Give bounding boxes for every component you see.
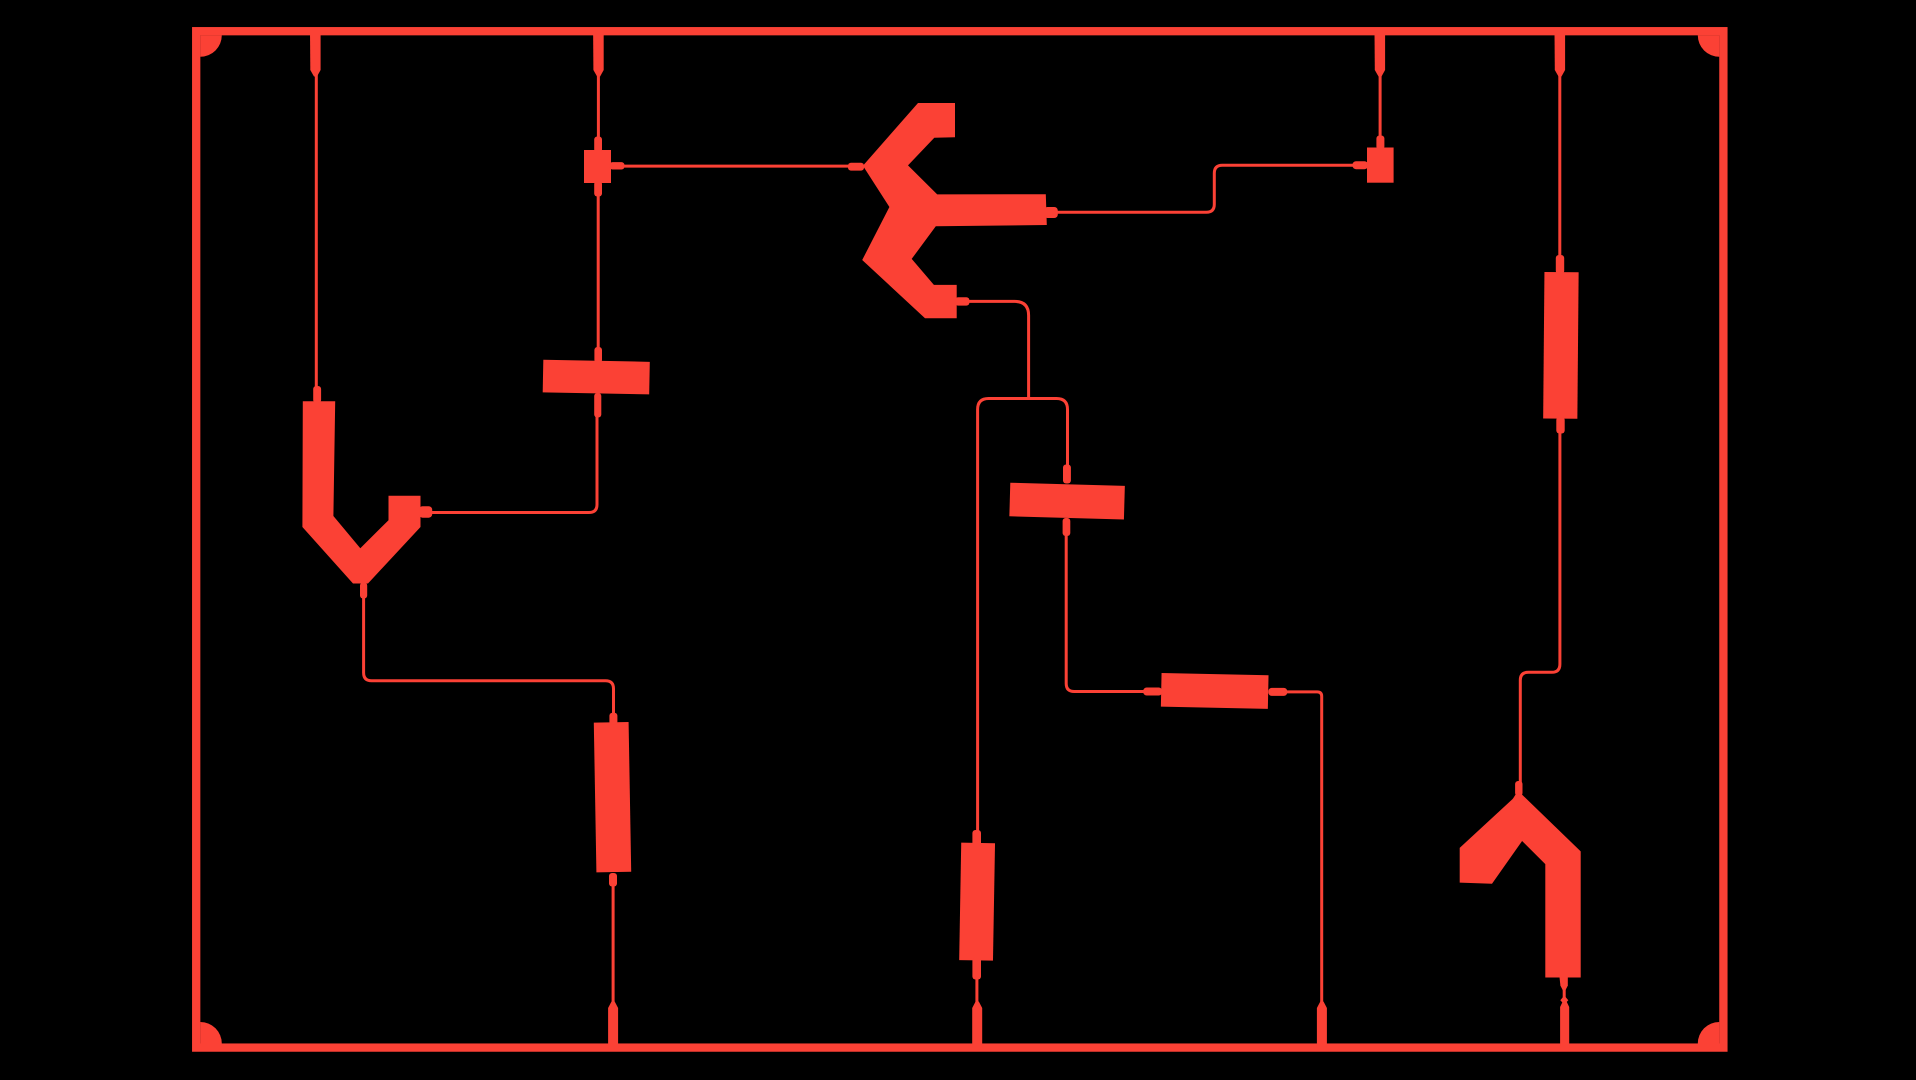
capacitor C1 body	[594, 722, 631, 872]
pad U1 right pin	[610, 162, 625, 169]
pad U2 left pin	[1353, 161, 1369, 169]
capacitor C3 bottom pin	[1556, 417, 1564, 434]
bottom rail stub B4	[1560, 1001, 1569, 1049]
V component Q2 top pin	[313, 386, 321, 403]
resistor R3 left pin	[1143, 688, 1162, 696]
resistor R2 body	[1009, 483, 1124, 520]
sigma Q1 left pin	[848, 163, 864, 171]
wire W9 sigma Q1 bottom pin down	[967, 301, 1029, 398]
sigma Q1 bottom pin	[955, 297, 969, 305]
top rail stub T3	[1375, 31, 1386, 77]
resistor R1 body	[543, 360, 650, 395]
wire W18 fork Q3 to bottom rail	[1563, 988, 1566, 1008]
fork Q3 bead	[1560, 996, 1568, 1005]
wire W6 pad U2 to top rail	[1379, 72, 1382, 140]
resistor R2 top pin	[1063, 465, 1071, 484]
capacitor C3 top pin	[1556, 255, 1564, 274]
fork Q3 neck fillet	[1512, 790, 1526, 801]
corner ornament top-right	[1698, 35, 1720, 57]
wire W3 pad U1 to resistor R1	[597, 192, 600, 352]
sigma Q1 right pin	[1044, 207, 1058, 218]
fork Q3 top pin	[1515, 781, 1522, 796]
resistor R1 bottom pin	[594, 393, 601, 418]
resistor R3 body	[1161, 673, 1269, 709]
capacitor C1 bottom pin	[609, 873, 617, 887]
bottom rail stub B3	[1317, 1002, 1327, 1049]
wire W7 top rail to capacitor C3	[1558, 72, 1561, 260]
capacitor C1 top pin	[609, 713, 617, 725]
corner ornament top-left	[200, 35, 222, 57]
wire W2 top rail to pad U1	[597, 72, 600, 140]
V component Q2 bottom pin	[360, 583, 367, 599]
fork component Q3 body	[1460, 792, 1581, 977]
resistor R3 right pin	[1268, 688, 1287, 696]
resistor R1 top pin	[594, 347, 602, 363]
wire W1 top rail to V component	[315, 72, 318, 390]
pad U1 top pin	[594, 137, 602, 153]
wire W11 resistor R2 to resistor R3	[1066, 533, 1146, 692]
V component Q2 body	[302, 401, 420, 583]
capacitor C2 top pin	[972, 830, 981, 846]
capacitor C2 body	[959, 843, 995, 961]
pad U1 body	[584, 150, 611, 183]
wire W14 V component right pin to resistor R1	[430, 415, 597, 513]
corner ornament bottom-right	[1698, 1022, 1720, 1044]
capacitor C3 body	[1543, 272, 1578, 419]
wire W12 resistor R3 to bottom rail	[1284, 692, 1322, 1008]
border frame	[196, 31, 1723, 1047]
bottom rail stub B1	[608, 1002, 618, 1049]
wire W10 tee run to C2 and R2	[978, 399, 1068, 836]
wire W8 capacitor C3 to fork Q3	[1520, 430, 1560, 784]
bottom rail stub B2	[972, 1002, 982, 1049]
pad U1 bottom pin	[594, 181, 602, 197]
wire W16 capacitor C1 to bottom rail	[612, 883, 615, 1008]
corner ornament bottom-left	[200, 1022, 222, 1044]
fork Q3 bottom pin	[1559, 976, 1567, 991]
wire W17 capacitor C2 to bottom rail	[975, 977, 978, 1008]
capacitor C2 bottom pin	[972, 958, 981, 980]
V component Q2 right pin	[419, 506, 432, 518]
top rail stub T2	[593, 31, 604, 77]
wire W5 sigma Q1 right pin to pad U2	[1055, 165, 1355, 212]
pad U2 top pin	[1376, 136, 1384, 150]
top rail stub T1	[310, 31, 321, 77]
top rail stub T4	[1555, 31, 1566, 77]
wire W4 pad U1 to sigma Q1 left pin	[622, 165, 852, 168]
sigma component Q1 body	[862, 103, 1047, 318]
pad U2 body	[1367, 148, 1394, 183]
resistor R2 bottom pin	[1063, 518, 1071, 536]
wire W13 V component to capacitor C1	[364, 595, 614, 716]
